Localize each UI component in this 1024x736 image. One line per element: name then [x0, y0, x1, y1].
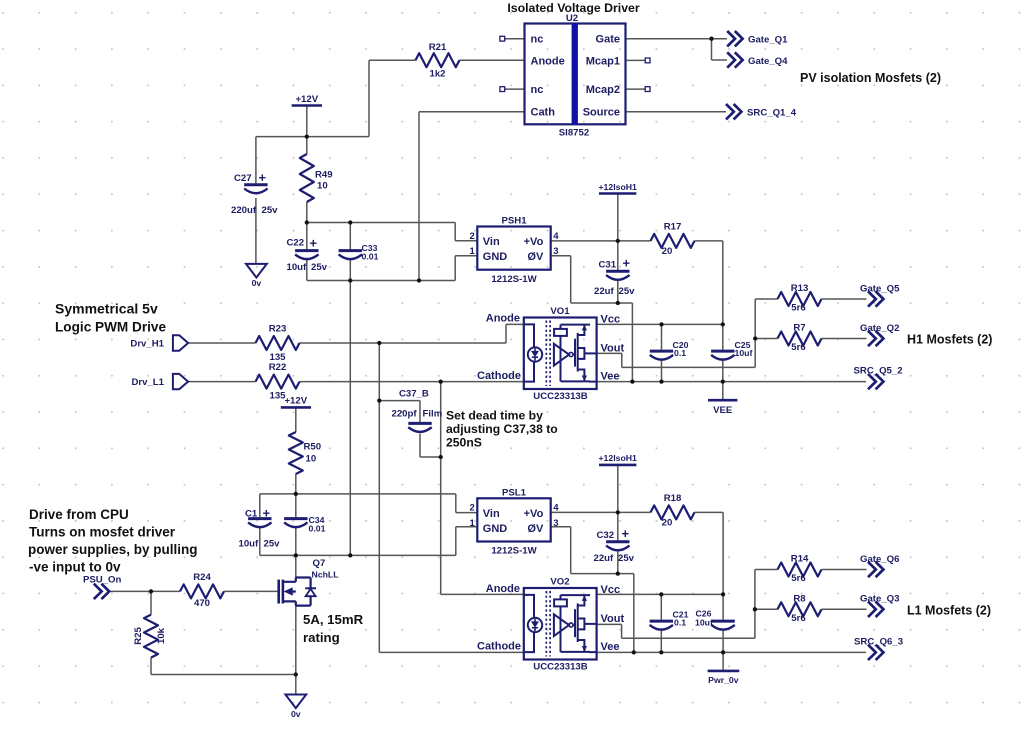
- svg-text:Drive from CPU: Drive from CPU: [29, 507, 129, 522]
- svg-text:ØV: ØV: [527, 251, 544, 263]
- svg-text:Gate_Q2: Gate_Q2: [860, 323, 899, 334]
- svg-text:2: 2: [470, 231, 475, 242]
- svg-text:Set dead time by: Set dead time by: [446, 409, 543, 423]
- capacitor C25 10uf: [711, 340, 752, 360]
- svg-text:135: 135: [269, 390, 286, 401]
- svg-text:VEE: VEE: [713, 405, 733, 416]
- wire VO2 Vout to R14/R8: [597, 570, 778, 639]
- wire PSH1 +Vo row, R17 to Vcc: [551, 240, 651, 242]
- ground 0v (under Q7): [285, 695, 306, 720]
- wire Drv_L1 row to VO1 cathode: [188, 381, 524, 383]
- svg-text:10k: 10k: [156, 627, 167, 644]
- wire U2 nc stubs: [505, 39, 525, 89]
- power +12IsoH1 (lower): [598, 453, 637, 465]
- wire long vertical from C33 down to C1 row: [349, 281, 351, 556]
- svg-text:PSL1: PSL1: [502, 488, 527, 499]
- svg-text:SRC_Q5_2: SRC_Q5_2: [854, 366, 903, 377]
- svg-text:R13: R13: [791, 283, 809, 294]
- svg-text:+Vo: +Vo: [524, 508, 544, 520]
- resistor R24 470: [180, 572, 224, 609]
- wire VO1 Vcc row: [597, 323, 723, 325]
- svg-text:+: +: [263, 506, 271, 521]
- nc square pin 3: [500, 87, 505, 92]
- wire C21 leads: [660, 594, 662, 652]
- wire C37_B links: [379, 401, 440, 457]
- svg-text:0v: 0v: [252, 278, 262, 288]
- wire Drv_H1 row to VO1 anode: [188, 324, 524, 343]
- svg-text:PSU_On: PSU_On: [83, 575, 122, 586]
- svg-text:R8: R8: [793, 593, 806, 604]
- node Gate_Q2: [860, 323, 899, 346]
- svg-text:nc: nc: [531, 34, 544, 46]
- wire R50 bottom: [295, 474, 297, 494]
- svg-text:5r6: 5r6: [791, 613, 805, 624]
- svg-text:NchLL: NchLL: [312, 569, 340, 579]
- svg-text:Anode: Anode: [531, 55, 565, 67]
- svg-text:10uf: 10uf: [287, 262, 308, 273]
- svg-text:C22: C22: [287, 237, 305, 248]
- op-amp VO1 UCC23313B opto driver: [477, 306, 624, 402]
- capacitor C22 10uf 25v: [287, 235, 328, 272]
- svg-text:R21: R21: [429, 42, 447, 53]
- capacitor C34 0.01: [284, 515, 325, 534]
- svg-text:Gate_Q1: Gate_Q1: [748, 35, 788, 46]
- svg-text:Vee: Vee: [601, 641, 620, 653]
- nc square Mcap2: [645, 87, 650, 92]
- svg-text:0.01: 0.01: [309, 524, 326, 534]
- power +12V (top): [292, 94, 322, 106]
- node Gate_Q5: [860, 283, 900, 306]
- svg-text:R23: R23: [269, 323, 287, 334]
- capacitor C20 0.1: [650, 340, 689, 360]
- node SRC_Q1_4: [726, 104, 797, 119]
- wire PSH1 0V pin to VEE row: [551, 256, 633, 382]
- svg-text:Gate_Q4: Gate_Q4: [748, 56, 788, 67]
- svg-text:220uf: 220uf: [231, 205, 257, 216]
- wire C32 leads: [617, 512, 619, 573]
- svg-text:Vout: Vout: [601, 613, 625, 625]
- svg-text:Q7: Q7: [313, 558, 326, 569]
- op-amp PSH1 1212S-1W dc-dc: [470, 216, 560, 285]
- svg-text:H1 Mosfets (2): H1 Mosfets (2): [907, 332, 992, 346]
- svg-text:GND: GND: [483, 523, 508, 535]
- wire C1/C34 top row to PSL1 pin2: [260, 494, 478, 513]
- capacitor C33 0.01: [339, 243, 379, 262]
- wire V+ row to PSH1 pin2: [307, 223, 478, 241]
- svg-text:25v: 25v: [619, 286, 636, 297]
- svg-text:1: 1: [470, 246, 476, 257]
- svg-text:Anode: Anode: [486, 313, 520, 325]
- svg-text:PV isolation Mosfets (2): PV isolation Mosfets (2): [800, 71, 941, 85]
- svg-text:+: +: [310, 235, 318, 250]
- wire R14/R8 to flags: [822, 570, 867, 610]
- svg-text:Drv_H1: Drv_H1: [130, 339, 164, 350]
- svg-text:+: +: [259, 170, 267, 185]
- svg-text:C31: C31: [599, 260, 617, 271]
- svg-text:1212S-1W: 1212S-1W: [491, 274, 537, 285]
- svg-text:Cath: Cath: [531, 107, 556, 119]
- note: Symmetrical 5v Logic PWM Drive: [55, 301, 166, 335]
- power +12V (mid): [281, 396, 311, 408]
- svg-text:Vout: Vout: [601, 343, 625, 355]
- nc square pin 1: [500, 36, 505, 41]
- svg-text:-ve input to 0v: -ve input to 0v: [29, 560, 121, 575]
- svg-text:C1: C1: [245, 509, 258, 520]
- wire VO1 Vee row to SRC flag: [597, 381, 866, 383]
- svg-text:22uf: 22uf: [594, 286, 615, 297]
- wire +12V rail to C27/R49/R21: [256, 60, 525, 136]
- wire C26 leads, Pwr_0v stub: [722, 594, 724, 671]
- svg-text:C32: C32: [597, 530, 615, 541]
- capacitor C27 220uf 25v: [231, 170, 278, 216]
- svg-text:Anode: Anode: [486, 583, 520, 595]
- svg-text:C27: C27: [234, 173, 252, 184]
- svg-text:470: 470: [194, 598, 210, 609]
- resistor R18 20: [651, 493, 695, 529]
- svg-text:Turns on mosfet driver: Turns on mosfet driver: [29, 525, 176, 540]
- capacitor C21 0.1: [650, 610, 689, 630]
- node PSU_On input: [83, 575, 122, 600]
- svg-text:4: 4: [553, 503, 559, 514]
- power +12IsoH1 (upper): [598, 182, 637, 194]
- svg-text:Film: Film: [423, 409, 443, 420]
- svg-text:10uf: 10uf: [735, 348, 753, 358]
- node Gate_Q4: [727, 52, 788, 67]
- svg-text:10: 10: [306, 454, 317, 465]
- svg-text:10uf: 10uf: [695, 618, 713, 628]
- svg-text:25v: 25v: [262, 205, 279, 216]
- svg-text:220pf: 220pf: [392, 409, 418, 420]
- svg-text:Vee: Vee: [601, 371, 620, 383]
- svg-text:Gate_Q6: Gate_Q6: [860, 554, 899, 565]
- svg-text:SI8752: SI8752: [559, 127, 589, 138]
- capacitor C1 10uf 25v: [239, 506, 281, 550]
- resistor R17 20: [651, 222, 695, 258]
- resistor R22 135: [256, 362, 300, 401]
- svg-text:1: 1: [470, 518, 476, 529]
- svg-text:R25: R25: [133, 627, 144, 645]
- wire PSU_On to R24 to Q7 gate: [109, 590, 279, 592]
- svg-text:20: 20: [662, 518, 673, 529]
- svg-text:Gate: Gate: [596, 34, 620, 46]
- svg-text:0.1: 0.1: [674, 348, 686, 358]
- svg-text:Gate_Q5: Gate_Q5: [860, 283, 900, 294]
- svg-text:+12IsoH1: +12IsoH1: [598, 453, 637, 463]
- node Drv_H1 input: [130, 335, 188, 350]
- svg-text:R14: R14: [791, 554, 809, 565]
- wire C34 leads: [295, 494, 297, 556]
- note: Drive from CPU: [28, 507, 198, 575]
- svg-text:0.01: 0.01: [362, 252, 379, 262]
- wire VO2 Vcc row: [597, 593, 724, 595]
- ground 0v (under C27): [246, 264, 267, 288]
- resistor R8 5r6: [778, 593, 822, 624]
- svg-text:UCC23313B: UCC23313B: [533, 391, 587, 402]
- resistor R25 10k (vertical, rotated labels): [133, 615, 167, 658]
- svg-text:SRC_Q6_3: SRC_Q6_3: [854, 637, 903, 648]
- svg-text:+12IsoH1: +12IsoH1: [598, 182, 637, 192]
- svg-text:250nS: 250nS: [446, 436, 482, 450]
- svg-text:ØV: ØV: [527, 523, 544, 535]
- node SRC_Q6_3: [854, 637, 903, 660]
- resistor R14 5r6: [778, 554, 822, 585]
- op-amp PSL1 1212S-1W dc-dc: [470, 488, 560, 557]
- svg-text:R22: R22: [269, 362, 287, 373]
- node Gate_Q1: [727, 31, 788, 46]
- wire Drv_L1 branch down to VO2 anode: [441, 382, 524, 595]
- wire U2 Mcap stubs: [626, 60, 646, 89]
- wire +12V(2) stub to R50: [295, 407, 297, 432]
- wire C1 leads: [259, 494, 261, 556]
- resistor R50 10: [289, 432, 321, 474]
- svg-text:Gate_Q3: Gate_Q3: [860, 594, 899, 605]
- wire C20 leads: [661, 324, 663, 381]
- svg-text:5r6: 5r6: [791, 573, 805, 584]
- svg-text:Logic PWM Drive: Logic PWM Drive: [55, 320, 166, 335]
- capacitor C26 10uf: [695, 609, 735, 630]
- svg-text:10: 10: [317, 181, 328, 192]
- svg-text:power supplies, by pulling: power supplies, by pulling: [28, 542, 198, 557]
- svg-text:VO1: VO1: [550, 306, 570, 317]
- svg-text:25v: 25v: [311, 262, 328, 273]
- wire VO1 Vout to R13/R7: [597, 299, 778, 367]
- svg-text:+: +: [623, 256, 631, 271]
- svg-text:R17: R17: [664, 222, 682, 233]
- svg-text:Vin: Vin: [483, 236, 500, 248]
- svg-text:Source: Source: [583, 107, 620, 119]
- svg-text:5r6: 5r6: [791, 342, 805, 353]
- svg-text:22uf: 22uf: [594, 553, 615, 564]
- svg-text:Cathode: Cathode: [477, 370, 521, 382]
- svg-text:0v: 0v: [291, 709, 301, 719]
- resistor R13 5r6: [778, 283, 822, 314]
- wire R25 leads and source row: [151, 591, 296, 674]
- svg-text:3: 3: [553, 246, 558, 257]
- wire 0v row to PSH1 pin1: [307, 256, 478, 281]
- svg-text:25v: 25v: [264, 538, 281, 549]
- wire U2 Cath to 0V rail: [419, 112, 525, 281]
- wire +12IsoH1 stub: [617, 194, 619, 241]
- svg-text:1k2: 1k2: [429, 69, 445, 80]
- power Pwr_0v rail: [708, 671, 740, 685]
- svg-text:R50: R50: [304, 442, 322, 453]
- svg-text:R7: R7: [793, 323, 805, 334]
- svg-text:0.1: 0.1: [674, 618, 686, 628]
- capacitor C31 22uf 25v: [594, 256, 635, 298]
- capacitor C37_B 220pf Film: [392, 388, 443, 432]
- wire R13/R7 to flags: [822, 299, 867, 339]
- wire C25 leads, VEE stub: [722, 324, 724, 400]
- node Gate_Q3: [860, 594, 899, 617]
- transistor Q7 NchLL mosfet: [279, 578, 316, 606]
- svg-text:L1 Mosfets (2): L1 Mosfets (2): [907, 603, 991, 617]
- wire U2 Source to flag: [626, 111, 726, 113]
- svg-text:5r6: 5r6: [791, 303, 805, 314]
- svg-text:Isolated Voltage Driver: Isolated Voltage Driver: [507, 1, 640, 15]
- svg-text:25v: 25v: [618, 553, 635, 564]
- wire VO2 Vee row to SRC flag: [597, 651, 866, 653]
- svg-text:nc: nc: [531, 84, 544, 96]
- power VEE rail: [708, 400, 737, 416]
- capacitor C32 22uf 25v: [594, 526, 635, 564]
- resistor R49 10: [300, 154, 333, 202]
- wire C1/C34 bottom row to PSL1 pin1: [260, 527, 478, 556]
- svg-text:2: 2: [470, 503, 475, 514]
- svg-text:R49: R49: [315, 170, 333, 181]
- svg-text:Symmetrical 5v: Symmetrical 5v: [55, 301, 158, 317]
- svg-text:R24: R24: [193, 572, 211, 583]
- svg-text:Pwr_0v: Pwr_0v: [708, 675, 739, 685]
- svg-text:4: 4: [553, 231, 559, 242]
- svg-text:R18: R18: [664, 493, 682, 504]
- op-amp VO2 UCC23313B opto driver: [477, 576, 624, 672]
- wire Q7 drain: [295, 555, 297, 578]
- wire +12IsoH1(2) stub: [617, 465, 619, 513]
- nc square Mcap1: [645, 58, 650, 63]
- wire PSL1 +Vo row, R18 to Vcc2: [551, 511, 651, 513]
- resistor R21 1k2: [416, 42, 460, 80]
- svg-text:GND: GND: [483, 251, 508, 263]
- svg-text:20: 20: [662, 246, 673, 257]
- svg-text:5A, 15mR: 5A, 15mR: [303, 612, 364, 627]
- wire Drv_H1 branch down to C37_B and VO2 cathode: [379, 343, 524, 652]
- op-amp U2 SI8752 isolated driver: [525, 13, 626, 138]
- wire PSL1 0V pin to Pwr_0v row: [551, 527, 634, 653]
- wire C27 leads: [255, 137, 257, 264]
- wire C33 leads: [349, 223, 351, 281]
- svg-text:Vin: Vin: [483, 508, 500, 520]
- svg-text:rating: rating: [303, 630, 340, 645]
- svg-text:VO2: VO2: [550, 576, 569, 587]
- svg-text:C37_B: C37_B: [399, 388, 429, 399]
- svg-text:1212S-1W: 1212S-1W: [491, 546, 537, 557]
- svg-text:PSH1: PSH1: [501, 216, 527, 227]
- svg-text:Mcap1: Mcap1: [586, 55, 620, 67]
- wire Q7 source to ground: [295, 606, 297, 695]
- svg-text:Vcc: Vcc: [601, 584, 621, 596]
- node Gate_Q6: [860, 554, 899, 577]
- svg-text:Vcc: Vcc: [601, 314, 621, 326]
- svg-text:10uf: 10uf: [239, 538, 260, 549]
- svg-text:+Vo: +Vo: [524, 236, 544, 248]
- svg-text:adjusting C37,38 to: adjusting C37,38 to: [446, 422, 558, 436]
- wire U2 Gate to flags: [626, 39, 727, 60]
- resistor R23 135: [256, 323, 300, 362]
- svg-text:+: +: [622, 526, 630, 541]
- svg-text:Mcap2: Mcap2: [586, 84, 620, 96]
- node Drv_L1 input: [131, 374, 188, 389]
- wire C22 leads: [306, 223, 308, 281]
- note: Set dead time: [446, 409, 558, 450]
- wire R49 leads: [306, 137, 308, 223]
- note: 5A 15mR rating: [303, 612, 364, 645]
- wire C31 leads: [617, 241, 619, 303]
- svg-text:UCC23313B: UCC23313B: [533, 662, 587, 673]
- svg-text:Cathode: Cathode: [477, 641, 521, 653]
- resistor R7 5r6: [778, 323, 822, 354]
- svg-text:+12V: +12V: [295, 94, 318, 105]
- svg-text:SRC_Q1_4: SRC_Q1_4: [747, 108, 797, 119]
- svg-text:+12V: +12V: [284, 396, 307, 407]
- svg-text:3: 3: [553, 518, 558, 529]
- node SRC_Q5_2: [854, 366, 903, 390]
- svg-text:Drv_L1: Drv_L1: [131, 377, 164, 388]
